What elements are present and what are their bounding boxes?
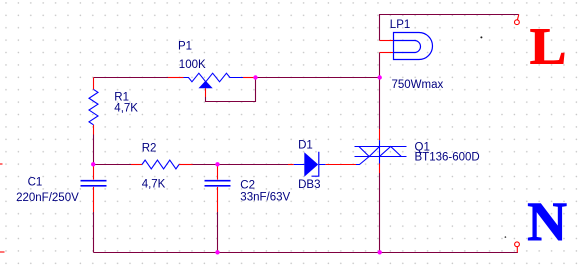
wire triac MT1 down to bottom rail — [379, 173, 381, 253]
resistor R2 — [142, 160, 179, 169]
lamp LP1 inner filament — [394, 41, 421, 53]
svg-text:C1: C1 — [28, 177, 43, 189]
triac Q1 bottom line — [355, 156, 407, 158]
junction node lamp/triac — [378, 75, 382, 79]
wire mid node to R2 — [94, 164, 132, 166]
lamp LP1 outer shell — [394, 33, 433, 60]
wire lamp lower pin down to node — [379, 53, 381, 78]
pin D1 left — [288, 164, 294, 166]
pin P1 wiper — [205, 88, 207, 97]
potentiometer P1 wiper arrow — [199, 81, 213, 89]
resistor R1 — [89, 89, 98, 124]
svg-text:4,7K: 4,7K — [142, 179, 166, 191]
junction node R1/C1/R2 — [91, 162, 95, 166]
junction node triac bottom — [378, 250, 382, 254]
pin R1 top — [93, 78, 95, 90]
svg-text:C2: C2 — [240, 179, 255, 191]
svg-text:L: L — [530, 19, 567, 76]
pin Q1 MT2 — [379, 129, 381, 140]
stray speck near N — [505, 236, 507, 238]
svg-text:33nF/63V: 33nF/63V — [240, 192, 290, 204]
wire R2 to C2 node to D1 — [193, 164, 289, 166]
pin stub left edge mid — [0, 163, 3, 165]
pin P1 right — [243, 77, 256, 79]
stray speck near lamp — [480, 36, 482, 38]
junction node C2 bottom — [215, 250, 219, 254]
pin C1 top — [93, 165, 95, 180]
wire C1 bottom to bottom rail corner — [93, 212, 95, 253]
pin LP1 upper — [380, 40, 394, 42]
diac D1 triangle — [304, 152, 318, 176]
wire P1 wiper loop — [206, 78, 256, 102]
wire top-left horizontal from R1 corner to P1 — [94, 77, 169, 79]
junction node R2/C2/D1 — [215, 162, 219, 166]
wire node down to triac MT2 — [379, 78, 381, 130]
pin P1 left — [168, 77, 184, 79]
pin C2 top — [217, 165, 219, 180]
triac Q1 top line — [355, 146, 407, 148]
svg-text:DB3: DB3 — [298, 179, 320, 191]
wire C2 bottom to bottom rail — [217, 212, 219, 253]
diac D1 bar with hook — [312, 152, 319, 176]
svg-text:LP1: LP1 — [390, 19, 410, 31]
svg-text:750Wmax: 750Wmax — [392, 79, 444, 91]
triac Q1 right triangle — [380, 147, 402, 157]
wire from P1 junction to lamp/triac node — [256, 77, 380, 79]
capacitor C2 plates — [205, 181, 231, 186]
wire lamp top branch and top rail to L terminal — [380, 15, 519, 41]
wire R1 bottom to mid node — [93, 135, 95, 165]
triac Q1 center vertical — [379, 140, 381, 163]
svg-text:BT136-600D: BT136-600D — [415, 152, 480, 164]
junction node P1 wiper tie — [253, 75, 257, 79]
terminal N stub — [516, 247, 518, 253]
svg-text:4,7K: 4,7K — [114, 103, 138, 115]
pin D1 right to Q1 gate — [325, 164, 356, 166]
pin Q1 MT1 — [379, 164, 381, 174]
svg-text:220nF/250V: 220nF/250V — [16, 192, 79, 204]
terminal L circle — [515, 20, 520, 25]
terminal L stub — [517, 15, 518, 20]
svg-text:N: N — [527, 191, 567, 252]
pin R2 right — [179, 164, 193, 166]
potentiometer P1 body — [184, 73, 244, 82]
pin stub left edge bottom — [0, 251, 5, 253]
svg-text:D1: D1 — [298, 140, 313, 152]
wire bottom rail — [94, 252, 518, 254]
triac Q1 left triangle — [359, 147, 380, 157]
capacitor C1 plates — [81, 181, 107, 186]
pin R2 left — [131, 164, 142, 166]
terminal N circle — [515, 242, 520, 247]
pin C2 bottom — [217, 187, 219, 212]
pin C1 bottom — [93, 187, 95, 212]
diac D1 lead stubs — [294, 164, 326, 166]
svg-text:P1: P1 — [178, 41, 192, 53]
triac Q1 gate lead — [356, 157, 369, 165]
svg-text:100K: 100K — [179, 59, 206, 71]
pin LP1 lower — [380, 52, 394, 54]
pin R1 bottom — [93, 125, 95, 135]
svg-text:R2: R2 — [142, 143, 157, 155]
